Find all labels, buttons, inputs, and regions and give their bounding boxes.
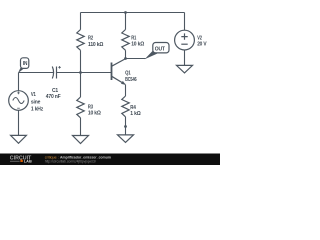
capacitor plus mark bbox=[58, 66, 61, 69]
flag OUT tail bbox=[145, 51, 158, 59]
ground under V2 bbox=[177, 65, 193, 73]
source V2 plus mark bbox=[181, 33, 187, 39]
wire R3 bottom lead bbox=[80, 118, 82, 136]
source V2 minus mark bbox=[181, 43, 187, 45]
resistor R2 bbox=[77, 30, 84, 51]
wire emitter to R4 bbox=[125, 85, 127, 97]
wire R4 bottom lead bbox=[125, 117, 127, 135]
flag IN box bbox=[21, 58, 29, 69]
resistor R4 bbox=[122, 96, 129, 117]
flag OUT box bbox=[153, 43, 169, 53]
watermark bar bbox=[0, 154, 220, 166]
svg-text:470 nF: 470 nF bbox=[46, 94, 61, 100]
ground under V1 bbox=[11, 135, 27, 143]
watermark logo orange square bbox=[20, 160, 22, 162]
wire V2 top lead bbox=[184, 13, 186, 31]
svg-text:IN: IN bbox=[23, 61, 28, 67]
svg-text:R2: R2 bbox=[88, 36, 93, 42]
svg-text:110 kΩ: 110 kΩ bbox=[88, 42, 103, 48]
svg-text:LAB: LAB bbox=[24, 160, 32, 164]
svg-text:R4: R4 bbox=[130, 105, 136, 111]
node junction dot top rail / R1 bbox=[124, 11, 127, 14]
source V1 circle bbox=[9, 91, 29, 111]
wire R1 bottom to collector node bbox=[125, 50, 127, 58]
wire capacitor to base node bbox=[57, 72, 81, 74]
wire V1 top lead bbox=[18, 73, 20, 91]
wire IN corner to capacitor bbox=[19, 72, 55, 74]
wire V2 bottom lead bbox=[184, 50, 186, 65]
svg-text:1 kΩ: 1 kΩ bbox=[130, 111, 140, 117]
capacitor C1 curved plate bbox=[52, 67, 53, 79]
wire R1 top lead bbox=[125, 13, 127, 30]
svg-text:Q1: Q1 bbox=[125, 71, 131, 77]
svg-text:V1: V1 bbox=[31, 92, 36, 98]
wire collector node to OUT flag bbox=[126, 58, 146, 60]
ground under R4 bbox=[118, 135, 134, 143]
flag IN tail bbox=[18, 67, 24, 73]
transistor Q1 emitter stroke bbox=[112, 76, 126, 84]
svg-text:R3: R3 bbox=[88, 104, 93, 110]
ground under R3 bbox=[73, 136, 89, 144]
svg-text:OUT: OUT bbox=[155, 47, 165, 53]
node junction dot base bbox=[79, 71, 82, 74]
transistor Q1 base bar bbox=[111, 63, 113, 81]
node dot on R4 ground lead bbox=[124, 125, 127, 128]
node junction dot collector bbox=[124, 57, 127, 60]
svg-text:C1: C1 bbox=[52, 88, 58, 94]
transistor Q1 collector stroke bbox=[112, 59, 126, 66]
source V2 circle bbox=[175, 30, 195, 50]
wire base from R2 node to Q1 base bbox=[81, 72, 112, 74]
wire V1 bottom lead bbox=[18, 110, 20, 135]
source V1 plus mark bbox=[17, 92, 20, 95]
resistor R3 bbox=[77, 97, 84, 118]
wire top rail from R2 top to V2 top bbox=[81, 12, 185, 14]
transistor Q1 emitter arrowhead bbox=[121, 81, 126, 85]
capacitor C1 straight plate bbox=[56, 67, 58, 79]
wire R2 bottom to base node bbox=[80, 50, 82, 72]
watermark logo underline bbox=[10, 160, 20, 162]
svg-text:http://circuitlab.com/c/4jt6pv: http://circuitlab.com/c/4jt6pvpqwz3/ bbox=[45, 159, 96, 163]
resistor R1 bbox=[122, 30, 129, 51]
svg-text:10 kΩ: 10 kΩ bbox=[131, 41, 144, 47]
svg-text:20 V: 20 V bbox=[197, 41, 207, 47]
wire R2 top lead bbox=[80, 13, 82, 30]
svg-text:1 kHz: 1 kHz bbox=[31, 106, 44, 112]
svg-text:10 kΩ: 10 kΩ bbox=[88, 110, 101, 116]
svg-text:BC546: BC546 bbox=[125, 77, 137, 83]
source V1 minus mark bbox=[17, 107, 20, 109]
wire R3 top lead from base node bbox=[80, 73, 82, 98]
source V1 sine wave bbox=[13, 98, 24, 104]
svg-text:sine: sine bbox=[31, 100, 41, 106]
